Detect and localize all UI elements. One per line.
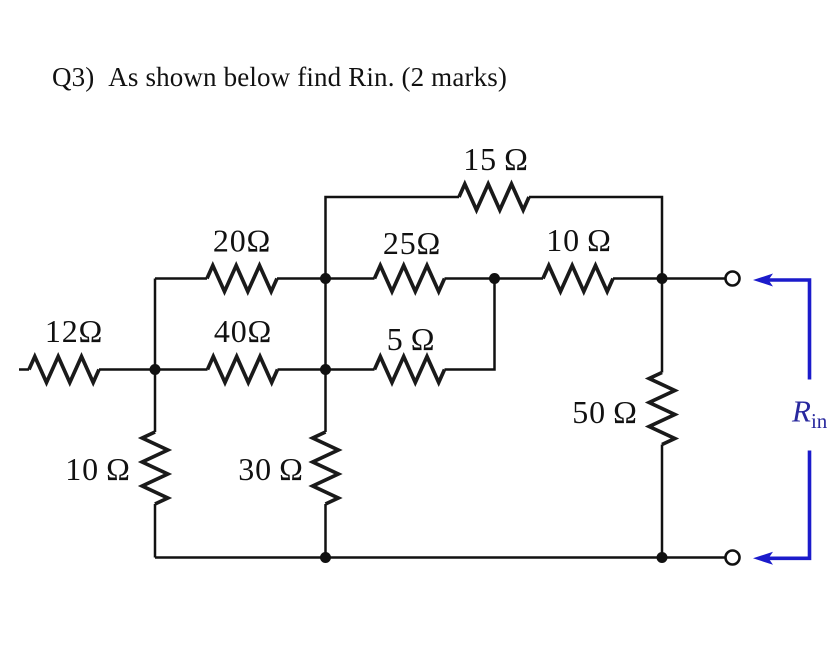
svg-text:10 Ω: 10 Ω	[65, 451, 130, 487]
svg-text:15 Ω: 15 Ω	[463, 141, 528, 177]
svg-text:40Ω: 40Ω	[214, 313, 272, 349]
svg-text:50 Ω: 50 Ω	[572, 394, 637, 430]
svg-text:Q3) As shown below find Rin.: Q3) As shown below find Rin. (2 marks)	[52, 62, 507, 92]
svg-text:25Ω: 25Ω	[383, 225, 441, 261]
svg-text:20Ω: 20Ω	[213, 223, 271, 259]
svg-text:10 Ω: 10 Ω	[546, 222, 611, 258]
svg-text:5 Ω: 5 Ω	[387, 321, 436, 357]
svg-text:30 Ω: 30 Ω	[238, 451, 303, 487]
svg-text:12Ω: 12Ω	[45, 313, 103, 349]
